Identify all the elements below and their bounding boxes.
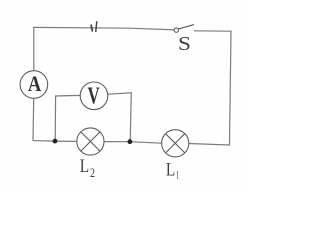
wire node A to lamp L2 — [55, 140, 77, 142]
wire lamp L2 to node B — [104, 141, 130, 143]
node B junction dot — [127, 139, 132, 144]
wire top (corner to switch) — [34, 27, 176, 30]
voltmeter V1 — [80, 82, 108, 110]
wire lamp L1 to node B — [130, 142, 162, 144]
battery — [91, 22, 97, 32]
svg-text:L: L — [166, 160, 175, 180]
label L1 — [166, 160, 179, 181]
label L2 — [80, 157, 95, 180]
ammeter A1 — [20, 71, 48, 99]
svg-text:A: A — [28, 71, 42, 96]
wire top-left vertical (corner to ammeter) — [33, 28, 35, 71]
wire right side — [230, 31, 232, 145]
svg-text:L: L — [80, 157, 89, 177]
wire bottom-left (ammeter down to node A) — [33, 98, 55, 141]
lamp L1 — [162, 130, 189, 157]
svg-text:S: S — [178, 33, 191, 55]
wire voltmeter branch left — [55, 95, 80, 141]
wire top-right (switch to corner) — [195, 30, 232, 32]
lamp L2 — [77, 128, 104, 155]
wire bottom-right (corner to lamp L1) — [189, 144, 230, 146]
node A junction dot — [53, 139, 58, 144]
switch S — [174, 25, 194, 55]
wire voltmeter branch right — [108, 93, 132, 142]
svg-text:1: 1 — [176, 168, 179, 182]
svg-text:V: V — [88, 84, 101, 110]
svg-text:2: 2 — [90, 166, 95, 180]
